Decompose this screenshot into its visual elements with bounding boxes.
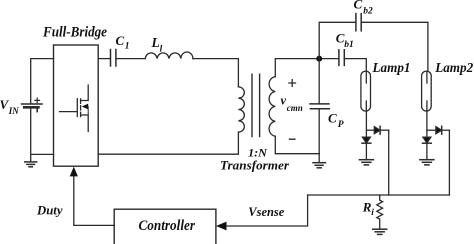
controller block (114, 209, 216, 244)
wire: lamp1 bottom to junction (365, 111, 367, 137)
wire: secondary top to node A (275, 59, 338, 77)
transformer core (252, 74, 260, 136)
ground (lamp2) (420, 160, 434, 165)
wire: node A down to CP (318, 59, 320, 104)
svg-text:cmn: cmn (287, 103, 303, 113)
wire: Cb2 to lamp2 top (361, 22, 428, 71)
resistor Ri (377, 195, 383, 229)
diode D1 (lamp1 down to ground) (362, 137, 371, 159)
svg-text:C: C (116, 33, 125, 48)
wire: battery bottom to ground / box (31, 107, 54, 161)
node A (junction dot) (316, 56, 322, 62)
wire: box left to battery top (31, 59, 54, 104)
label VIN (0, 97, 19, 116)
svg-text:C: C (354, 0, 363, 12)
svg-text:C: C (328, 111, 337, 126)
wire: lamp2 bottom to junction (426, 111, 428, 137)
svg-text:Controller: Controller (139, 218, 196, 234)
svg-text:b1: b1 (344, 40, 354, 50)
wire: sense rail to Vsense arrow (226, 195, 308, 226)
diode D2 (lamp1 to sense rail) (366, 126, 388, 134)
capacitor Cb1 (339, 50, 344, 66)
diode D4 (lamp2 to sense rail) (427, 126, 450, 134)
label CP (328, 111, 344, 130)
sense rail wire (308, 194, 450, 196)
svg-text:Lamp2: Lamp2 (434, 60, 473, 75)
diode D3 (lamp2 down to ground) (423, 137, 432, 159)
wire: C1 to L (116, 58, 145, 60)
wire: L to transformer corner (193, 59, 239, 87)
svg-text:Lamp1: Lamp1 (372, 60, 411, 75)
capacitor C1 (111, 50, 116, 67)
wire: D2 down to sense rail (388, 130, 390, 195)
svg-text:Vsense: Vsense (248, 204, 284, 219)
ground (CP node) (313, 163, 325, 168)
label Ri (362, 199, 375, 217)
label vcmn (281, 94, 303, 113)
svg-text:P: P (338, 120, 344, 130)
svg-text:IN: IN (8, 106, 20, 116)
transformer primary winding (238, 87, 244, 132)
svg-text:Duty: Duty (36, 204, 63, 218)
ground (Ri) (373, 229, 387, 234)
label + (secondary polarity) (289, 80, 296, 87)
battery VIN (22, 98, 42, 112)
label - (secondary polarity) (290, 138, 295, 140)
svg-text:Transformer: Transformer (220, 157, 290, 172)
capacitor Cb2 (356, 14, 361, 31)
wire: primary bottom to return rail (98, 132, 238, 154)
svg-text:v: v (281, 94, 287, 108)
full-bridge block (54, 45, 99, 166)
arrow into full-bridge (Duty) (70, 167, 78, 177)
lamp1 tube (361, 71, 371, 111)
wire: controller to duty arrow (74, 176, 114, 225)
lamp2 tube (422, 71, 432, 111)
label Ll (151, 35, 163, 54)
wire: secondary bottom (275, 136, 319, 154)
arrow into controller (Vsense) (216, 222, 227, 231)
transistor Q1 (MOSFET inside full-bridge) (60, 85, 89, 132)
inductor Ll (145, 52, 193, 59)
wire: Cb1 to lamp1 top (344, 59, 366, 72)
svg-text:L: L (151, 35, 160, 50)
wire: CP to ground (318, 109, 320, 163)
transformer secondary winding (269, 77, 275, 137)
svg-text:R: R (362, 199, 372, 214)
label C1 (116, 33, 130, 52)
capacitor CP (310, 104, 329, 109)
svg-text:Full-Bridge: Full-Bridge (42, 24, 108, 40)
ground (battery) (25, 162, 37, 167)
svg-text:b2: b2 (363, 6, 373, 16)
wire: box right to C1 (98, 58, 110, 60)
svg-text:l: l (160, 45, 163, 55)
label Cb2 (354, 0, 373, 16)
svg-text:1: 1 (125, 41, 130, 51)
svg-text:i: i (371, 208, 374, 218)
ground (lamp1) (359, 160, 373, 165)
wire: node A up to Cb2 (319, 22, 355, 58)
wire: D4 down to sense rail (448, 130, 450, 195)
label Cb1 (336, 31, 354, 51)
